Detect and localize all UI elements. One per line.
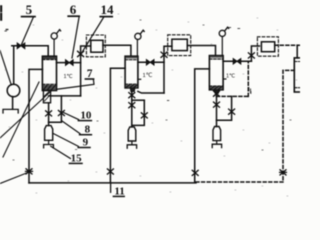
wire vessel 1 outlet [57, 62, 81, 64]
cooler 3 body [261, 42, 274, 52]
wire vessel 3 left drop to manifold [195, 69, 210, 182]
wire cooler 1 outlet to vessel 2 [103, 45, 131, 56]
cooler 2 dashed enclosure [168, 35, 191, 56]
gauge 3 needle [225, 27, 229, 31]
valve stage 3 drain lower [214, 102, 220, 107]
branch line vessel 1 bottom to riser [49, 95, 81, 97]
filter 9 [45, 126, 53, 141]
svg-text:1℃: 1℃ [226, 74, 236, 80]
gauge 2 stem [136, 40, 138, 57]
wire vessel 2 outlet [138, 61, 164, 63]
svg-text:8: 8 [85, 124, 91, 136]
valve 5 [17, 43, 25, 49]
leader bottom-left to vessel 1 boot [3, 82, 39, 157]
gauge 1 stem [53, 39, 55, 56]
leader bottom-left to vessel 1 bottom [0, 87, 56, 139]
faint scan noise [5, 14, 297, 196]
pump P (compressor circle) [7, 84, 20, 97]
filter stage 2 drain stub [131, 141, 133, 145]
vessel 1 top bed line [42, 59, 56, 61]
vessel 7 (adsorber 1) [42, 56, 56, 90]
filter 9 drain stub [48, 140, 50, 144]
vessel 2 side stub [138, 78, 141, 80]
wire feed header to vessel 7 [12, 46, 48, 56]
filter stage 3 drain stub [216, 141, 218, 145]
valve stage 2 bypass [141, 113, 147, 118]
gauge 3 stem [221, 37, 223, 56]
branch line vessel 2 bottom to riser [138, 91, 164, 93]
branch dashed riser up [247, 62, 249, 97]
valve stage 2 drain upper [129, 93, 135, 98]
svg-text:7: 7 [87, 68, 93, 80]
drain funnel stage 3 [212, 144, 221, 147]
vessel 3 bottom bed line [209, 85, 223, 87]
leader for label 15 [51, 146, 71, 158]
valve 8 (drain stage 1) [46, 111, 52, 116]
gauge 2 [135, 33, 141, 39]
valve stage 3 drain upper [214, 91, 220, 96]
svg-text:10: 10 [80, 110, 92, 122]
vessel 1 boot [43, 90, 50, 102]
vessel 3 (adsorber 3) [209, 56, 223, 90]
leader for label 10 [64, 113, 79, 120]
riser 1 to cooler [81, 46, 91, 96]
filter stage 3 [213, 127, 221, 141]
valve on left drop 2 [107, 169, 113, 174]
wire cooler 2 outlet to vessel 3 [187, 46, 215, 56]
valve on left drop 3 [192, 170, 198, 175]
riser 3 to cooler [251, 46, 259, 61]
drain funnel 15 [44, 145, 54, 148]
drain line stage 1 [48, 103, 50, 126]
vessel 2 top bed line [125, 59, 138, 61]
drain pot under pump [3, 109, 18, 113]
riser 2 to cooler [164, 46, 172, 93]
drain funnel stage 2 [127, 145, 136, 148]
valve on riser 1 [78, 51, 84, 56]
cooler 3 dashed enclosure [257, 37, 278, 56]
tee stage 2 to bypass [132, 99, 145, 101]
svg-text:6: 6 [70, 2, 77, 17]
wire vessel 2 left drop to manifold [110, 68, 125, 183]
vessel 1 bottom hatch [43, 85, 56, 90]
bypass stage 3 [217, 96, 232, 120]
svg-text:1℃: 1℃ [64, 74, 74, 80]
bypass stage 2 [132, 100, 145, 125]
wire cooler 3 outlet dashed [275, 44, 300, 46]
vessel 1 bottom bed line [42, 83, 56, 85]
vessel 4 bottom bed line [294, 87, 300, 89]
drain line stage 3 [216, 93, 218, 126]
wire pump discharge [12, 97, 14, 110]
wire stub into vessel 4 [296, 45, 298, 58]
leader for label 9 [53, 134, 78, 147]
vessel 3 side stub [223, 78, 226, 80]
wire pump suction riser [13, 46, 15, 85]
gauge 2 needle [140, 30, 144, 34]
valve on riser 3 [248, 53, 254, 58]
valve 6 [66, 60, 74, 66]
gauge 1 [51, 33, 57, 39]
gauge 3 [219, 30, 225, 36]
vessel 1 boot hatch [45, 92, 51, 102]
vessel 2 bottom bed line [125, 83, 138, 85]
svg-text:9: 9 [83, 136, 89, 148]
wire vessel 4 left drop dashed [283, 70, 294, 181]
cooler 2 body [172, 39, 187, 50]
leader bottom-left to manifold valve [0, 173, 28, 184]
valve stage 2 drain lower [129, 103, 135, 108]
branch dashed vessel 3 drain to riser [217, 95, 249, 97]
vessel 2 drain cone [130, 88, 135, 92]
drain line stage 2 [131, 92, 133, 127]
manifold dashed [196, 181, 283, 183]
scan speckles [13, 20, 291, 160]
manifold solid [29, 182, 196, 184]
leader for label 14 [83, 17, 104, 52]
leader for label 5 [21, 18, 33, 46]
vessel 3 bottom hatch [210, 86, 223, 89]
svg-text:5: 5 [26, 2, 33, 17]
valve 10 (bypass stage 1) [58, 110, 64, 115]
svg-text:1℃: 1℃ [143, 73, 153, 79]
valve on dashed drop [280, 170, 287, 175]
wire vessel 1 left drop to manifold [29, 69, 42, 182]
valve stage 3 outlet [233, 59, 241, 64]
leader from left edge label to pump [0, 51, 11, 86]
svg-text:15: 15 [71, 152, 83, 164]
leader for label 6 [72, 18, 79, 59]
valve stage 3 bypass [229, 109, 235, 114]
wire vessel 3 outlet [223, 60, 251, 62]
vessel 3 top bed line [209, 58, 223, 60]
vessel 2 (adsorber 2) [125, 56, 138, 88]
vessel 4 top bed line [294, 61, 300, 63]
bypass drop stage 1 [49, 96, 62, 122]
leader for label 8 [62, 121, 80, 134]
vessel 2 bottom hatch [126, 85, 138, 88]
cooler 14 dashed enclosure [86, 35, 105, 57]
outlet stub 11 [110, 183, 112, 193]
cooler 14 body [91, 40, 103, 52]
valve on riser 2 [161, 52, 167, 57]
speck near left label [6, 29, 8, 31]
gauge 1 needle [57, 30, 61, 34]
valve stage 2 outlet [146, 60, 154, 65]
partial label at left edge [0, 7, 2, 20]
vessel 3 drain cone [214, 90, 219, 94]
filter stage 2 [128, 127, 136, 141]
speck marks [5, 28, 251, 101]
vessel 4 partial [294, 58, 302, 92]
leader for label 7 [57, 80, 95, 90]
svg-text:14: 14 [101, 2, 115, 17]
vessel 1 top cap band [43, 57, 56, 59]
valve on left drop [26, 169, 33, 174]
